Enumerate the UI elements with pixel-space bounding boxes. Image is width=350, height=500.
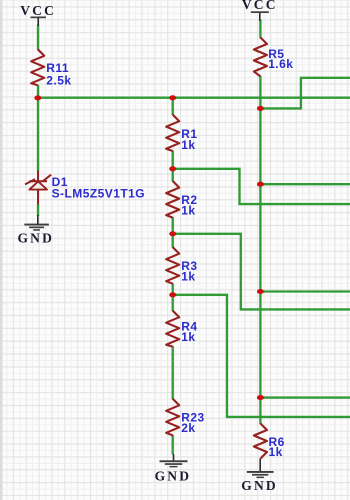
wire R23 to GND2: [172, 435, 174, 455]
wire R1 to junction C: [172, 151, 174, 170]
svg-text:VCC: VCC: [242, 0, 278, 12]
junction B: [169, 95, 176, 100]
wire R11 to junction A: [37, 85, 39, 98]
ground GND3: [241, 459, 278, 493]
wire junction E to R4: [172, 295, 174, 311]
junction E: [169, 292, 176, 297]
wire R5 down main vertical: [259, 76, 261, 424]
wire junction E branch: [173, 295, 350, 417]
junction G: [257, 182, 264, 187]
label R5 value: [268, 47, 293, 71]
svg-text:GND: GND: [241, 478, 278, 493]
resistor R3: [166, 247, 179, 284]
wire junction C to R2: [172, 169, 174, 182]
label R6 value: [269, 435, 285, 459]
svg-text:1k: 1k: [181, 330, 195, 344]
power port VCC2 VCC: [242, 0, 278, 21]
junction D: [169, 231, 176, 236]
label R4 value: [181, 319, 197, 344]
svg-text:2.5k: 2.5k: [46, 73, 71, 87]
wire VCC1 to R11: [37, 25, 39, 50]
junction C: [169, 166, 176, 171]
wire VCC2 to R5: [259, 20, 261, 38]
resistor R1: [166, 115, 179, 151]
wire D1 to GND1: [37, 204, 39, 216]
wire junction F branch: [260, 78, 350, 109]
svg-text:1k: 1k: [181, 204, 195, 218]
resistor R6: [254, 423, 267, 458]
wire junction C branch: [173, 169, 350, 204]
label R11 value: [46, 61, 71, 88]
resistor R5: [254, 37, 267, 76]
svg-text:1k: 1k: [181, 138, 195, 152]
wire junction H branch: [260, 290, 350, 292]
svg-text:1k: 1k: [181, 269, 195, 283]
resistor R23: [166, 399, 179, 436]
power port VCC1 VCC: [20, 3, 56, 26]
junction I: [257, 395, 264, 400]
resistor R11: [31, 49, 44, 85]
left edge shade: [0, 0, 3, 500]
svg-text:2k: 2k: [181, 421, 195, 435]
junction F: [257, 106, 264, 111]
ground GND1: [17, 215, 54, 245]
svg-text:GND: GND: [17, 230, 54, 245]
wire R2 to junction D: [172, 217, 174, 234]
junction A: [34, 95, 41, 100]
wire mid column junctionB to R1: [172, 98, 174, 115]
label R3 value: [181, 259, 197, 284]
svg-text:1k: 1k: [269, 445, 283, 459]
svg-text:VCC: VCC: [20, 3, 56, 18]
svg-text:GND: GND: [155, 469, 192, 484]
resistor R2: [166, 181, 179, 218]
wire junction D branch: [173, 234, 350, 310]
label R1 value: [181, 127, 197, 152]
wire R4 to R23: [172, 346, 174, 399]
label R23 value: [181, 411, 204, 435]
wire junction A to D1: [37, 98, 39, 171]
wire junction G branch: [260, 183, 350, 185]
wire junction D to R3: [172, 234, 174, 248]
junction H: [257, 289, 264, 294]
resistor R4: [166, 311, 179, 347]
wire junction I branch: [260, 396, 350, 398]
svg-text:S-LM5Z5V1T1G: S-LM5Z5V1T1G: [52, 186, 145, 200]
wire R3 to junction E: [172, 283, 174, 295]
ground GND2: [155, 454, 192, 484]
label R2 value: [181, 193, 197, 218]
label D1: [52, 175, 145, 200]
svg-text:1.6k: 1.6k: [268, 57, 293, 71]
zener diode D1: [25, 171, 51, 205]
wire bus y=97.7 left-to-right: [38, 97, 350, 99]
